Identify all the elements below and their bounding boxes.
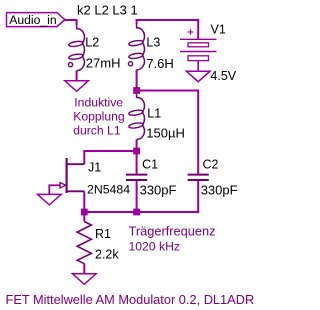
svg-text:R1: R1 — [95, 227, 111, 241]
label V1 — [211, 22, 226, 36]
svg-text:4.5V: 4.5V — [210, 69, 236, 83]
value 2.2k — [95, 248, 119, 262]
wire audio_in to L2 — [65, 19, 77, 21]
wire L3 top — [136, 19, 138, 25]
svg-text:durch L1: durch L1 — [73, 124, 121, 138]
label L1 — [147, 107, 161, 121]
wire right rail to C2 — [137, 90, 199, 92]
value 330pF C2 — [201, 182, 238, 197]
svg-text:7.6H: 7.6H — [146, 56, 173, 71]
wire L3 bottom — [136, 70, 138, 91]
inductor L1 — [128, 94, 144, 139]
node source-R1 junction — [81, 209, 88, 216]
wire gate to ground — [48, 184, 50, 194]
svg-text:27mH: 27mH — [86, 55, 121, 70]
directive k2 L2 L3 1 — [77, 2, 138, 17]
wire gate — [49, 184, 60, 186]
wire C1 bottom — [136, 180, 138, 212]
value 27mH — [86, 55, 121, 70]
wire C2 bottom — [197, 180, 199, 213]
node L3-L1-C2 junction — [133, 87, 140, 94]
svg-text:L2: L2 — [85, 36, 99, 50]
label L3 — [146, 36, 160, 50]
svg-text:Trägerfrequenz: Trägerfrequenz — [129, 223, 216, 238]
port flag Audio_in — [7, 13, 65, 27]
capacitor C2 — [188, 175, 209, 180]
svg-text:1020 kHz: 1020 kHz — [129, 239, 181, 253]
wire L2 to ground — [76, 71, 78, 81]
label J1 — [88, 160, 101, 174]
text title FET Mittelwelle AM Modulator — [6, 292, 255, 307]
svg-text:k2 L2 L3 1: k2 L2 L3 1 — [77, 2, 138, 17]
wire drain to node — [84, 150, 136, 152]
svg-text:330pF: 330pF — [140, 182, 177, 197]
wire L1 top — [136, 91, 138, 95]
label Audio_in — [9, 13, 56, 27]
ground below V1 — [186, 71, 210, 82]
svg-text:Kopplung: Kopplung — [73, 110, 125, 124]
svg-text:L3: L3 — [146, 36, 160, 50]
wire R1 top — [83, 212, 85, 222]
label C1 — [142, 157, 158, 171]
inductor L2 — [68, 25, 84, 70]
wire L1 bottom — [136, 139, 138, 151]
value 2N5484 — [87, 183, 130, 197]
resistor R1 — [77, 222, 91, 264]
wire L2 top — [76, 19, 78, 25]
svg-text:C1: C1 — [142, 157, 158, 171]
node C1 bottom junction — [133, 209, 140, 216]
wire C1 top — [136, 151, 138, 175]
svg-text:J1: J1 — [88, 160, 101, 174]
svg-text:C2: C2 — [203, 157, 219, 171]
ground below L2 — [65, 81, 89, 92]
svg-text:L1: L1 — [147, 107, 161, 121]
text Induktive Kopplung durch L1 — [73, 96, 125, 138]
svg-text:Audio_in: Audio_in — [9, 13, 56, 27]
ground at gate — [38, 194, 62, 205]
node L1-C1-drain junction — [133, 148, 140, 155]
wire C2 top — [197, 90, 199, 175]
wire top rail L3 to V1 — [136, 19, 199, 21]
svg-text:150µH: 150µH — [146, 126, 185, 141]
svg-text:2N5484: 2N5484 — [87, 183, 130, 197]
svg-text:2.2k: 2.2k — [95, 248, 119, 262]
value 7.6H — [146, 56, 173, 71]
battery V1 — [180, 29, 217, 71]
text Traegerfrequenz 1020 kHz — [129, 223, 216, 253]
value 4.5V — [210, 69, 236, 83]
value 330pF C1 — [140, 182, 177, 197]
svg-text:V1: V1 — [211, 22, 226, 36]
wire R1 to ground — [83, 264, 85, 274]
svg-text:330pF: 330pF — [201, 182, 238, 197]
label L2 — [85, 36, 99, 50]
ground below R1 — [73, 274, 97, 285]
label C2 — [203, 157, 219, 171]
wire bottom rail — [84, 211, 198, 213]
wire source vertical — [83, 191, 85, 212]
label R1 — [95, 227, 111, 241]
value 150uH — [146, 126, 185, 141]
svg-text:Induktive: Induktive — [74, 96, 123, 110]
svg-text:FET Mittelwelle AM Modulator 0: FET Mittelwelle AM Modulator 0.2, DL1ADR — [6, 292, 255, 307]
inductor L3 — [128, 25, 144, 70]
transistor J1 2N5484 — [60, 158, 84, 193]
capacitor C1 — [126, 175, 147, 180]
wire V1 top — [197, 19, 199, 39]
wire drain vertical — [83, 150, 85, 164]
